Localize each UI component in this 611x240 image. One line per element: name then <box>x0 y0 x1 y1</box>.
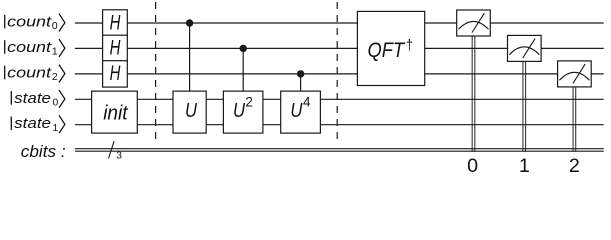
wire state_1 <box>75 124 604 126</box>
measure M2 on count_2 <box>558 61 592 152</box>
wire count_2 <box>75 73 604 75</box>
node ket state_1 <box>11 115 65 134</box>
svg-text:count: count <box>7 39 52 56</box>
svg-text:2: 2 <box>52 72 58 83</box>
svg-text:cbits :: cbits : <box>21 142 66 161</box>
node ket count_1 <box>5 39 65 58</box>
svg-text:U: U <box>185 99 197 122</box>
svg-text:2: 2 <box>569 155 580 175</box>
wire count_0 <box>75 22 604 24</box>
svg-text:0: 0 <box>467 155 478 175</box>
svg-text:state: state <box>14 90 51 107</box>
control dot on count_2 <box>297 70 304 77</box>
svg-text:init: init <box>103 102 129 124</box>
svg-text:H: H <box>110 62 121 85</box>
svg-text:U: U <box>290 99 302 122</box>
svg-text:1: 1 <box>519 155 530 175</box>
svg-text:2: 2 <box>245 94 253 109</box>
svg-text:0: 0 <box>52 21 58 32</box>
gate H on count_0 <box>103 10 128 36</box>
svg-text:count: count <box>7 14 52 31</box>
svg-text:4: 4 <box>303 94 311 109</box>
svg-text:†: † <box>406 37 413 54</box>
control dot on count_1 <box>240 45 247 52</box>
gate QFT dagger <box>357 11 424 85</box>
gate U^4 <box>281 91 321 133</box>
svg-text:state: state <box>14 115 51 132</box>
measure M1 on count_1 <box>508 35 542 151</box>
svg-text:H: H <box>110 37 121 60</box>
barrier 1 <box>155 2 157 144</box>
svg-text:H: H <box>110 11 121 34</box>
svg-text:0: 0 <box>53 97 59 108</box>
wire state_0 <box>75 98 604 100</box>
wire cbits double line <box>75 148 604 150</box>
control wire U^4 <box>300 74 302 91</box>
control wire U^1 <box>189 23 191 91</box>
svg-text:U: U <box>233 99 245 122</box>
svg-text:QFT: QFT <box>368 38 406 62</box>
gate init on state_0 state_1 <box>92 91 138 133</box>
svg-text:1: 1 <box>53 123 59 134</box>
control wire U^2 <box>242 48 244 91</box>
gate U^1 <box>173 91 206 133</box>
svg-text:1: 1 <box>52 47 58 58</box>
control dot on count_0 <box>186 19 193 26</box>
node ket count_0 <box>5 14 65 33</box>
svg-text:3: 3 <box>116 150 122 161</box>
cbits bundle slash <box>109 141 115 158</box>
svg-text:count: count <box>7 64 52 81</box>
barrier 2 <box>336 2 338 144</box>
measure M0 on count_0 <box>457 10 491 152</box>
wire count_1 <box>75 47 604 49</box>
gate H on count_2 <box>103 61 128 87</box>
node ket state_0 <box>11 90 65 109</box>
node ket count_2 <box>5 64 65 83</box>
gate H on count_1 <box>103 35 128 61</box>
gate U^2 <box>223 91 263 133</box>
